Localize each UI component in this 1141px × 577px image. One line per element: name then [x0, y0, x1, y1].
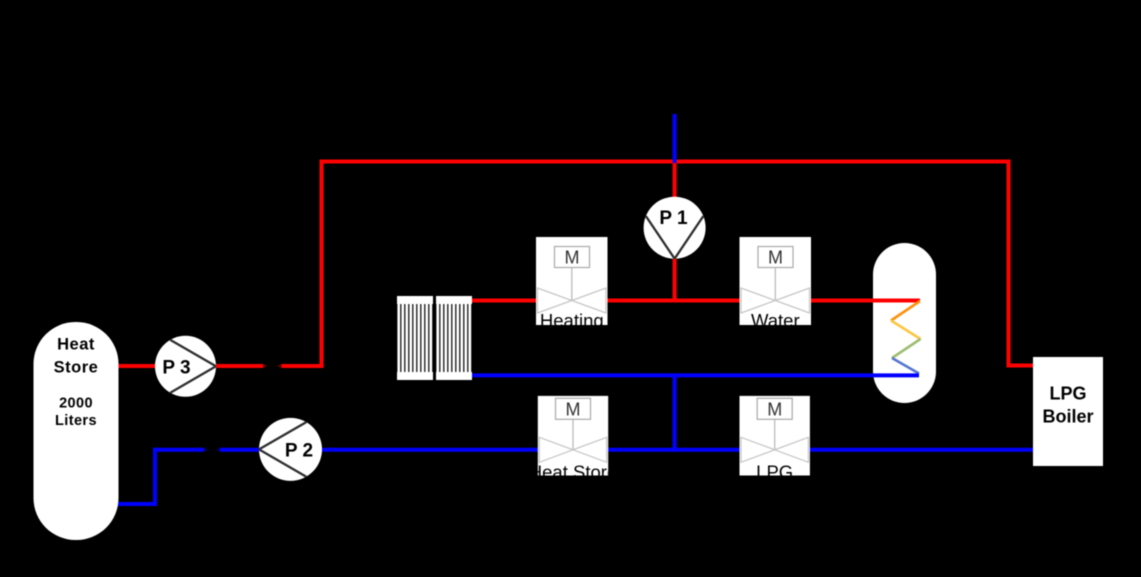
- wire blue pump P2 to Heat Store valve: [321, 448, 539, 452]
- svg-text:Heat: Heat: [57, 336, 95, 354]
- svg-text:M: M: [566, 399, 581, 419]
- wire blue tank outlet riser vertical: [153, 448, 157, 506]
- wire red Heating valve to Water valve: [607, 299, 740, 303]
- svg-text:Store: Store: [54, 359, 99, 377]
- LPG boiler B1: [1033, 357, 1103, 466]
- wire blue cold feed stub at top: [673, 114, 677, 163]
- wire blue LPG valve to LPG boiler: [810, 448, 1035, 452]
- svg-text:P 3: P 3: [162, 358, 190, 379]
- motor valve Heating: [536, 237, 608, 331]
- motor valve LPG: [740, 396, 810, 482]
- svg-text:LPG: LPG: [1049, 384, 1086, 404]
- coil segment orange: [891, 301, 920, 321]
- wire blue tank bottom outlet horizontal: [117, 502, 157, 506]
- svg-text:2000: 2000: [59, 396, 93, 412]
- svg-text:M: M: [565, 248, 580, 268]
- svg-text:Liters: Liters: [55, 413, 97, 429]
- flow arrow on red supply pipe: [263, 364, 282, 368]
- radiator right section: [436, 296, 472, 380]
- coil segment green: [892, 339, 921, 358]
- wire red tank to pump P3: [117, 364, 156, 368]
- pump P2: [259, 418, 322, 481]
- flow arrow on blue return pipe: [204, 448, 220, 452]
- wire red left riser vertical: [320, 160, 324, 369]
- svg-text:M: M: [767, 399, 782, 419]
- radiator left section: [397, 296, 433, 380]
- pump P3: [155, 336, 216, 397]
- wire red jog into LPG boiler: [1007, 364, 1035, 368]
- svg-text:Boiler: Boiler: [1042, 407, 1093, 427]
- wire red flow arrow to left riser corner: [282, 364, 324, 368]
- coil segment light blue: [892, 358, 919, 374]
- wire red Water valve into heat exchanger coil: [811, 299, 921, 303]
- wire red right downcomer vertical: [1007, 160, 1011, 368]
- wire red top header horizontal: [320, 160, 1011, 164]
- svg-text:M: M: [768, 248, 783, 268]
- wire blue flow arrow to pump P2: [220, 448, 260, 452]
- wire blue branch vertical at node between valves: [673, 375, 677, 451]
- wire red radiator to Heating valve: [470, 299, 537, 303]
- svg-text:P 2: P 2: [285, 441, 313, 462]
- motor valve Heat Store: [529, 396, 617, 482]
- pump P1: [644, 197, 706, 259]
- wire red stem below pump P1: [673, 257, 677, 302]
- wire blue riser to flow arrow: [153, 448, 204, 452]
- coil segment amber: [891, 321, 921, 340]
- wire red pump P3 to flow arrow: [215, 364, 263, 368]
- heat store tank T1: [34, 322, 119, 540]
- heat exchanger vessel V1: [873, 243, 936, 403]
- wire red stem above pump P1: [673, 162, 677, 199]
- wire blue Heat Store valve to LPG valve: [608, 448, 741, 452]
- wire blue return main from radiator through heat exchanger: [470, 373, 919, 377]
- svg-text:P 1: P 1: [659, 208, 688, 229]
- motor valve Water: [740, 237, 812, 331]
